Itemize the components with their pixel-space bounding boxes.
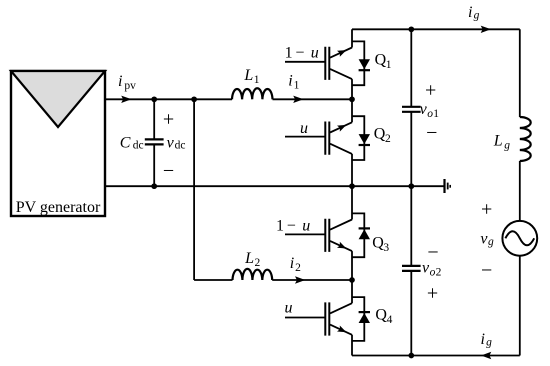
- diode D2 (antiparallel with Q2): [352, 116, 370, 160]
- inductor L1: [232, 88, 273, 99]
- svg-text:1: 1: [294, 79, 300, 91]
- node: Q2/Q3 mid-rail junction: [349, 183, 355, 189]
- svg-text:i: i: [468, 4, 472, 21]
- label i_g (bottom): [481, 331, 493, 349]
- PV generator source box: [11, 71, 105, 216]
- svg-text:L: L: [493, 133, 503, 150]
- wire: right rail top (grid corner down to Lg): [519, 29, 521, 117]
- ground: [445, 179, 451, 193]
- label i_g (top): [468, 4, 480, 22]
- label i1: [288, 72, 299, 91]
- svg-text:3: 3: [383, 242, 389, 254]
- label v_o2: [422, 259, 442, 278]
- node C: Q1/Q2 midpoint junction: [349, 96, 355, 102]
- svg-text:4: 4: [387, 314, 393, 326]
- diode D3 (antiparallel with Q3): [352, 213, 370, 257]
- diode D4 (antiparallel with Q4): [352, 297, 370, 341]
- current arrow i1: [293, 96, 303, 103]
- label i2: [290, 255, 301, 274]
- svg-text:Q: Q: [372, 234, 384, 251]
- svg-text:−: −: [426, 122, 437, 144]
- node: C_dc bottom junction: [151, 183, 157, 189]
- svg-text:i: i: [288, 72, 292, 89]
- label Q4: [375, 306, 392, 326]
- label 1-u (Q3 gate): [276, 217, 310, 234]
- label v_o1: [420, 101, 440, 120]
- svg-text:+: +: [425, 79, 436, 101]
- current arrow i_g (bottom): [481, 352, 491, 359]
- node A: C_dc top junction: [151, 96, 157, 102]
- svg-text:g: g: [486, 336, 492, 348]
- svg-text:i: i: [290, 255, 294, 272]
- wire: L2 branch horizontal to L2: [194, 279, 232, 281]
- svg-text:+: +: [481, 198, 492, 220]
- svg-text:Q: Q: [374, 125, 386, 142]
- svg-text:v: v: [167, 135, 175, 152]
- label L2: [244, 250, 260, 269]
- wire: Lg to AC source vg: [519, 161, 521, 221]
- svg-text:u: u: [300, 120, 308, 137]
- svg-text:g: g: [474, 10, 480, 22]
- svg-text:u: u: [285, 299, 293, 316]
- capacitor v_o1: [402, 29, 421, 186]
- svg-text:−: −: [163, 160, 174, 182]
- wire: L1 to node C (Q1/Q2 midpoint): [273, 98, 353, 100]
- svg-text:+: +: [427, 282, 438, 304]
- label 1-u (Q1 gate): [285, 45, 319, 62]
- svg-text:g: g: [488, 236, 494, 248]
- svg-text:pv: pv: [124, 80, 136, 92]
- label Q3: [372, 234, 389, 254]
- svg-text:2: 2: [255, 257, 261, 269]
- svg-text:dc: dc: [133, 140, 144, 152]
- svg-text:1: 1: [285, 45, 293, 62]
- label Lg: [493, 133, 510, 152]
- capacitor C_dc: [145, 99, 164, 186]
- label v_dc: [167, 135, 186, 152]
- capacitor v_o2: [402, 186, 421, 355]
- svg-text:1: 1: [386, 59, 392, 71]
- current arrow i_g (top): [481, 26, 491, 33]
- svg-text:i: i: [118, 73, 122, 90]
- svg-text:Q: Q: [375, 51, 387, 68]
- svg-text:2: 2: [436, 266, 442, 278]
- diode D1 (antiparallel with Q1): [352, 41, 370, 85]
- transistor Q2 (IGBT): [285, 99, 352, 186]
- label i_pv: [118, 73, 136, 92]
- node D: Q3/Q4 midpoint junction: [349, 277, 355, 283]
- svg-text:1: 1: [254, 74, 260, 86]
- label C_dc: [120, 135, 144, 152]
- label Q1: [375, 51, 392, 71]
- svg-text:PV generator: PV generator: [16, 199, 101, 216]
- svg-text:i: i: [481, 331, 485, 348]
- node: v_o2 bottom rail junction: [408, 353, 414, 359]
- svg-text:Q: Q: [375, 306, 387, 323]
- svg-text:u: u: [311, 45, 319, 62]
- svg-text:1: 1: [276, 217, 284, 234]
- current arrow i_pv: [121, 96, 131, 103]
- svg-text:u: u: [302, 217, 310, 234]
- svg-text:2: 2: [295, 262, 301, 274]
- transistor Q3 (IGBT, mirrored): [285, 186, 352, 280]
- wire: vg to bottom rail corner: [519, 256, 521, 356]
- AC source vg: [502, 221, 537, 256]
- svg-text:1: 1: [433, 108, 439, 120]
- wire: L2 branch vertical (node B down): [193, 99, 195, 280]
- svg-text:C: C: [120, 135, 131, 152]
- svg-text:+: +: [163, 109, 174, 131]
- current arrow i2: [295, 276, 305, 283]
- label L1: [243, 67, 259, 86]
- transistor Q4 (IGBT, mirrored): [285, 280, 352, 356]
- svg-text:g: g: [504, 139, 510, 151]
- svg-text:−: −: [481, 259, 492, 281]
- svg-text:−: −: [295, 45, 304, 62]
- node: v_o1/v_o2 mid-rail junction: [408, 183, 414, 189]
- svg-text:L: L: [243, 67, 253, 84]
- wire: top rail (Q1 collector to grid corner): [352, 28, 520, 30]
- node B: L2 branch junction: [191, 96, 197, 102]
- inductor Lg: [520, 117, 531, 161]
- label v_g: [480, 230, 494, 248]
- label Q2: [374, 125, 391, 145]
- svg-text:2: 2: [385, 133, 391, 145]
- node: v_o1 top rail junction: [408, 26, 414, 32]
- inductor L2: [233, 269, 273, 280]
- wire: PV positive terminal to L1: [105, 98, 232, 100]
- svg-text:−: −: [287, 217, 296, 234]
- wire: bottom rail: [352, 355, 520, 357]
- transistor Q1 (IGBT): [285, 29, 352, 99]
- wire: mid rail (neutral) PV negative to ground: [105, 185, 445, 187]
- svg-text:dc: dc: [175, 140, 186, 152]
- wire: L2 to node D (Q3/Q4 midpoint): [272, 279, 352, 281]
- svg-text:L: L: [244, 250, 254, 267]
